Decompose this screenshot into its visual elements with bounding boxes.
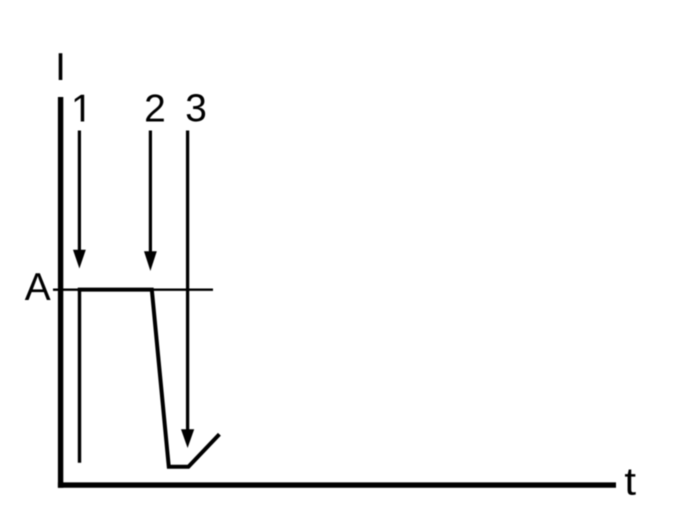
axis label t [625,470,636,495]
arrow 1 head [73,250,86,269]
curve: vertical rise segment [78,288,81,463]
label 3 [187,94,205,122]
arrow 2 head [144,251,157,271]
x-axis (t axis) [58,482,616,487]
arrow 3 shaft [186,131,189,432]
label 2 [146,94,164,121]
y-axis (I axis) [58,97,63,488]
arrow 1 shaft [78,131,81,253]
curve: plateau at A, drop, bottom, rise [78,290,220,467]
arrow 3 head [181,429,194,448]
thin level-A guide line [53,288,213,290]
axis label I [59,53,63,80]
arrow 2 shaft [149,131,152,254]
label 1 [75,95,84,122]
level label A [25,273,51,300]
